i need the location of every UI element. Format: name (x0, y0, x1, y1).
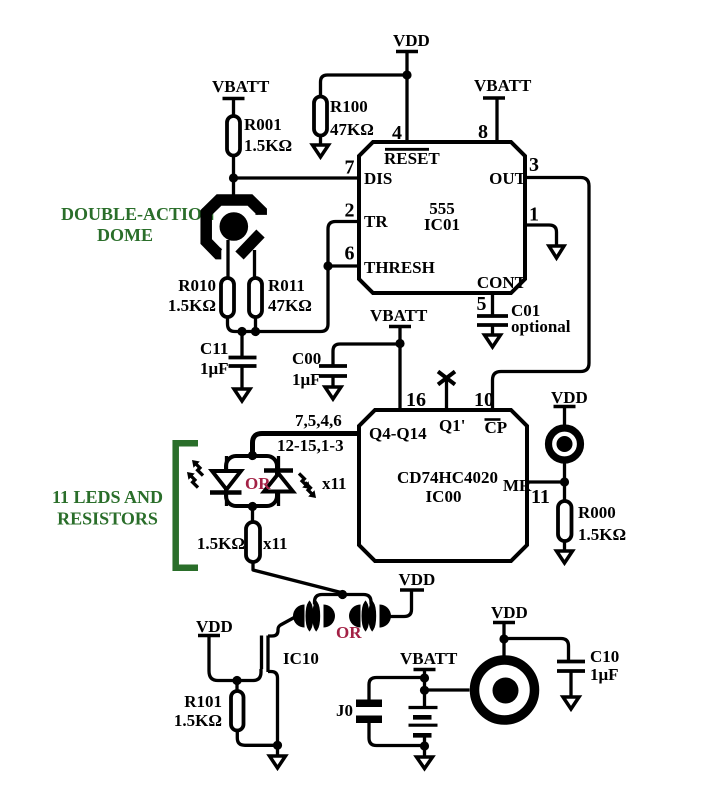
dome button (220, 212, 249, 241)
wire node to R100 (321, 75, 408, 97)
pin 7 DIS label (345, 157, 393, 189)
svg-text:1.5KΩ: 1.5KΩ (197, 534, 245, 553)
svg-text:VBATT: VBATT (370, 306, 428, 325)
power VDD (jack) (491, 603, 528, 623)
svg-text:VDD: VDD (551, 388, 588, 407)
node R001/pin7/dome (229, 173, 238, 182)
ground (C00) (325, 387, 341, 399)
svg-text:Q4-Q14: Q4-Q14 (369, 424, 427, 443)
ground (C11) (234, 389, 250, 401)
transducer right lens pair (363, 603, 375, 629)
svg-text:VBATT: VBATT (212, 77, 270, 96)
battery B0 (409, 708, 438, 736)
svg-text:47KΩ: 47KΩ (330, 120, 374, 139)
svg-text:C00: C00 (292, 349, 321, 368)
wire R000 to ground (563, 541, 566, 551)
wire node to pin 6 (328, 264, 359, 267)
LED D-left (cathode down) (210, 471, 242, 493)
node VDD/R100 (402, 70, 411, 79)
capacitor C10 (557, 647, 619, 684)
wire right LED cathode top (277, 456, 280, 470)
power jack ring (475, 660, 535, 720)
LED D-right (cathode up) (264, 471, 293, 492)
node source/R101 (273, 741, 282, 750)
label 11 LEDS AND RESISTORS (52, 487, 163, 529)
node LED top (248, 451, 257, 460)
transducer left lens pair (307, 603, 319, 629)
svg-text:R101: R101 (184, 692, 222, 711)
svg-text:1.5KΩ: 1.5KΩ (244, 136, 292, 155)
wire battery to ground node (423, 735, 426, 757)
pin 2 TR label (345, 200, 389, 232)
transducer left D cap (324, 605, 336, 628)
svg-text:RESET: RESET (384, 149, 440, 168)
wire dome to R010 (226, 240, 229, 278)
node battery ground (420, 741, 429, 750)
svg-text:CONT: CONT (477, 273, 527, 292)
power VBATT (battery) (400, 649, 458, 670)
transducer left (half-disc cap) (293, 605, 305, 628)
svg-text:J0: J0 (336, 701, 353, 720)
svg-text:1μF: 1μF (590, 665, 619, 684)
node OR top (338, 590, 347, 599)
wire R001 to node (232, 156, 235, 197)
ground (IC10) (270, 756, 286, 768)
node VBATT/J0 (420, 673, 429, 682)
svg-text:6: 6 (345, 243, 355, 265)
power VBATT (R001) (212, 77, 270, 99)
transducer right (half-disc cap) (349, 605, 361, 628)
power VDD (IC10) (196, 617, 233, 636)
svg-text:OR: OR (245, 474, 271, 493)
pin 6 THRESH label (345, 243, 435, 278)
svg-text:1μF: 1μF (292, 370, 321, 389)
wire dome stub to R011 (253, 250, 256, 278)
SECTION: 555 (345, 121, 590, 410)
ground (C01) (485, 335, 501, 347)
emission arrows right LED (299, 473, 316, 498)
transistor IC10 gate bar (260, 636, 263, 670)
svg-text:C10: C10 (590, 647, 619, 666)
test point ring (MR) (549, 428, 581, 460)
svg-text:Q1': Q1' (439, 416, 465, 435)
svg-text:OR: OR (336, 623, 362, 642)
node VBATT/C00/pin16 (395, 339, 404, 348)
resistor R000 (558, 501, 626, 544)
wire VDD to gate node (209, 636, 237, 681)
svg-text:THRESH: THRESH (364, 258, 435, 277)
resistor R101 (174, 691, 244, 731)
label CD74HC4020 IC00 (397, 468, 498, 506)
svg-text:16: 16 (406, 389, 426, 411)
wire pin 1 to ground (525, 225, 557, 246)
svg-text:VBATT: VBATT (400, 649, 458, 668)
pin 5 CONT label (477, 273, 527, 315)
node MR/R000 (560, 477, 569, 486)
wire R101 to ground rail (237, 731, 277, 746)
svg-text:R001: R001 (244, 115, 282, 134)
ground (C10) (563, 697, 579, 709)
svg-text:2: 2 (345, 200, 355, 222)
ground (battery) (417, 757, 433, 769)
svg-text:OUT: OUT (489, 169, 527, 188)
svg-text:DOME: DOME (97, 225, 153, 245)
wire right LED anode (277, 492, 280, 507)
resistor 1.5K x11 (197, 522, 288, 562)
svg-text:RESISTORS: RESISTORS (57, 509, 158, 529)
node gate/R101 (232, 676, 241, 685)
wire gate node to gate (237, 669, 261, 681)
svg-text:x11: x11 (263, 534, 288, 553)
svg-text:47KΩ: 47KΩ (268, 296, 312, 315)
resistor R010 (168, 276, 234, 317)
svg-text:DOUBLE-ACTION: DOUBLE-ACTION (61, 204, 215, 224)
connector J0 pads (336, 700, 382, 724)
svg-text:8: 8 (478, 121, 488, 143)
wire node to ground (276, 745, 279, 756)
pin 3 OUT label (489, 154, 539, 188)
svg-text:IC00: IC00 (426, 487, 462, 506)
wire C10 to ground (569, 671, 572, 697)
wire VDD to pin 4 (405, 52, 408, 143)
node pin6/pin2 (323, 261, 332, 270)
svg-text:1.5KΩ: 1.5KΩ (578, 525, 626, 544)
wire pin 5 to C01 (491, 293, 494, 316)
wire C01 to ground (491, 325, 494, 335)
SECTION: dome (61, 200, 261, 278)
power VBATT (IC00 pin16) (370, 306, 428, 327)
svg-text:7: 7 (345, 157, 355, 179)
SECTION: top-left VBATT / R001 (212, 31, 532, 196)
pin 11 MR label (503, 476, 550, 508)
svg-text:4: 4 (392, 122, 402, 144)
svg-text:VDD: VDD (196, 617, 233, 636)
svg-text:7,5,4,6: 7,5,4,6 (295, 411, 342, 430)
label 555 IC01 (424, 199, 460, 234)
wire C00 to ground (331, 376, 334, 387)
svg-text:VDD: VDD (393, 31, 430, 50)
svg-text:VDD: VDD (491, 603, 528, 622)
power VBATT (pin 8) (474, 76, 532, 98)
node VDD/C10 (499, 634, 508, 643)
wire J0 bottom to battery ground node (369, 723, 425, 746)
wire resistor to OR node (diagonal) (253, 562, 341, 593)
wire VDD to jack (502, 623, 505, 657)
svg-text:optional: optional (511, 317, 571, 336)
wire node to C10 (504, 639, 569, 662)
wire VDD to test point (563, 407, 566, 426)
node R011 bottom (251, 327, 260, 336)
svg-text:IC01: IC01 (424, 215, 460, 234)
SECTION: OR cluster + IC10 (174, 570, 435, 768)
wire right transducer to VDD (390, 590, 412, 617)
svg-text:CP: CP (485, 418, 508, 437)
svg-text:MR: MR (503, 476, 532, 495)
ground (R000) (557, 551, 573, 563)
svg-text:11 LEDS AND: 11 LEDS AND (52, 487, 163, 507)
svg-text:12-15,1-3: 12-15,1-3 (277, 436, 344, 455)
svg-text:TR: TR (364, 212, 388, 231)
wire IC10 source to ground rail (268, 672, 278, 746)
svg-text:DIS: DIS (364, 169, 392, 188)
wire OR top link (315, 595, 372, 605)
no-connect X mark (438, 372, 455, 385)
node R010/C11 (237, 327, 246, 336)
SECTION: LEDs (52, 443, 347, 592)
pin Q1' no-connect stub (445, 379, 448, 410)
wire R011 bottom (254, 317, 257, 332)
wire left LED anode (225, 456, 228, 471)
LED pair loop (226, 456, 277, 506)
power VDD (top) (393, 31, 430, 52)
emission arrows left LED (187, 460, 203, 488)
wire node to pin 7 (234, 176, 360, 179)
svg-text:C11: C11 (200, 339, 228, 358)
power VDD (transducer) (399, 570, 436, 590)
svg-text:VBATT: VBATT (474, 76, 532, 95)
counter IC00: CD74HC4020 body (359, 410, 527, 561)
dome switch arc (206, 200, 261, 254)
wire C00 top to VBATT node (333, 344, 400, 366)
transistor IC10 channel bar (266, 636, 269, 673)
resistor R001 (227, 115, 292, 156)
svg-text:x11: x11 (322, 474, 347, 493)
svg-text:R000: R000 (578, 503, 616, 522)
wire C11 drop (240, 332, 243, 358)
pin 4 RESET label (384, 122, 440, 168)
wire J0 top to VBATT node (369, 678, 425, 700)
svg-text:IC10: IC10 (283, 649, 319, 668)
wire VBATT to pin 8 (495, 98, 498, 142)
wire VBATT to pin 16 (398, 327, 401, 411)
ground (pin 1) (549, 246, 564, 258)
node jack/battery (420, 686, 429, 695)
svg-text:CD74HC4020: CD74HC4020 (397, 468, 498, 487)
power VDD (MR) (551, 388, 588, 407)
green bracket (176, 443, 198, 567)
wire LED bottom to resistor (251, 506, 254, 522)
svg-text:VDD: VDD (399, 570, 436, 589)
transducer right D cap (380, 605, 392, 628)
wire left transducer to IC10 drain (268, 617, 296, 637)
svg-text:1.5KΩ: 1.5KΩ (174, 711, 222, 730)
wire VBATT to R001 (232, 99, 235, 117)
wire MR to node (527, 480, 565, 483)
wire VBATT to battery (423, 670, 426, 708)
SECTION: IC00 (253, 372, 627, 564)
resistor R011 (249, 276, 312, 317)
svg-text:5: 5 (477, 293, 487, 315)
wire ring to R000 (563, 463, 566, 501)
svg-text:R011: R011 (268, 276, 305, 295)
node LED bottom (248, 502, 257, 511)
capacitor C01 (477, 301, 571, 336)
capacitor C11 (200, 339, 257, 378)
svg-text:3: 3 (529, 154, 539, 176)
resistor R100 (314, 97, 374, 140)
svg-text:R010: R010 (178, 276, 216, 295)
wire R100 to ground (319, 136, 322, 146)
capacitor C00 (292, 349, 347, 389)
svg-text:11: 11 (531, 486, 550, 508)
wire pin 3 OUT to IC00 pin 10 (493, 178, 590, 411)
svg-text:1.5KΩ: 1.5KΩ (168, 296, 216, 315)
wire node to R101 (235, 681, 238, 692)
dome actuator stub (240, 234, 261, 256)
SECTION: R010 R011 C11 C00 (168, 222, 428, 411)
wire left LED cathode (225, 494, 228, 506)
ground (R100) (313, 145, 329, 157)
SECTION: bottom right (336, 603, 619, 769)
svg-text:1: 1 (529, 204, 539, 226)
svg-text:R100: R100 (330, 97, 368, 116)
label DOUBLE-ACTION DOME (61, 204, 215, 245)
wire R010 bottom rail to pin6 riser (228, 222, 360, 332)
wire jack to battery node (425, 688, 470, 691)
wire C11 to ground (240, 366, 243, 389)
svg-text:10: 10 (474, 389, 494, 411)
op-amp U1: 555 timer IC01 body (359, 142, 525, 293)
svg-text:1μF: 1μF (200, 359, 229, 378)
pin 10 CP label (474, 389, 507, 437)
wire bus Q4-Q14 to LEDs (253, 434, 360, 457)
